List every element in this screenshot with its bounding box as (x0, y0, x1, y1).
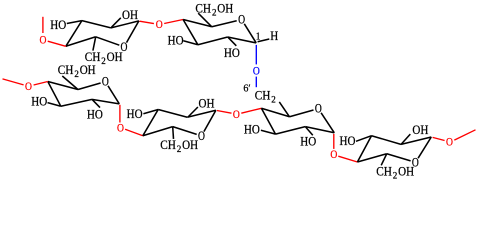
svg-text:H: H (270, 28, 278, 43)
ring A: bond C1-C2 (111, 21, 139, 28)
ring D: bond O(ring)-C1 (204, 110, 216, 131)
ring B: bond O(ring)-C1 (244, 24, 256, 43)
svg-text:HO: HO (168, 33, 184, 48)
ring A: bond C5-CH2OH (93, 37, 96, 51)
svg-text:HO: HO (340, 133, 356, 148)
svg-text:HO: HO (300, 134, 316, 149)
ring D: bond C5-O(ring) (173, 127, 197, 135)
ring C: bond C2-C3 (61, 99, 92, 106)
svg-text:HO: HO (50, 17, 66, 32)
ring C: chain-continuation stub (red) (3, 79, 24, 85)
svg-text:CH: CH (255, 88, 271, 103)
ring F: red bond C1-O (433, 137, 445, 140)
ring E: bond C3-C4 (261, 108, 275, 134)
svg-text:HO: HO (244, 122, 260, 137)
ring E: bond C2-HO (305, 127, 312, 135)
svg-text:O: O (238, 14, 245, 27)
ring C: bond CH2OH-C5 (62, 76, 78, 90)
glycosidic bond O-C4(D) (red) (125, 129, 143, 136)
ring F: bond C3-C4 (357, 136, 371, 162)
glucose ring D: bond C4-C5 (143, 127, 173, 136)
svg-text:O: O (117, 123, 124, 135)
svg-text:HO: HO (224, 45, 240, 60)
svg-text:OH: OH (182, 137, 198, 152)
1-6 glycosidic bond O down to C6' (blue) (255, 77, 257, 88)
ring B: bond C2-HO (228, 37, 236, 46)
svg-text:O: O (102, 76, 109, 89)
glycosidic bond O-C4(F) (red) (338, 156, 357, 162)
ring F: bond C5-CH2OH (381, 154, 387, 166)
svg-text:CH: CH (195, 1, 211, 16)
glycosidic bond O-C4(E) (red) (241, 108, 261, 113)
ring B: bond C1-H (258, 39, 270, 42)
ring F: bond C1-C2 (401, 137, 431, 144)
ring F: bond HO-C3 (356, 136, 372, 142)
svg-text:O: O (253, 66, 260, 78)
svg-text:OH: OH (107, 49, 123, 64)
svg-text:O: O (446, 137, 453, 149)
svg-text:2: 2 (74, 69, 79, 79)
ring A: bond HO-C3 (67, 21, 82, 24)
glycosidic bond C1(E)-O vertical (red) (333, 134, 335, 149)
glycosidic bond C1(C)-O vertical (red) (119, 105, 121, 123)
ring D: bond C1-C2 (187, 110, 216, 117)
ring E: bond HO-C3 (261, 130, 276, 134)
svg-text:2: 2 (101, 56, 106, 66)
glycosidic bond O-C4(B) (red) (164, 20, 183, 24)
glucose ring A: bond C4-C5 (66, 37, 96, 47)
ring A: bond C5-O(ring) (96, 37, 120, 45)
glucose ring F: bond C4-C5 (357, 154, 386, 162)
ring D: bond OH-C2 (188, 107, 198, 117)
svg-text:OH: OH (217, 1, 233, 16)
ring E: bond CH2-C5 (279, 102, 289, 117)
1-6 glycosidic bond from C1(B) down (blue) (255, 45, 257, 65)
svg-text:2: 2 (212, 7, 217, 17)
ring D: bond HO-C3 (143, 110, 158, 114)
ring E: bond C5-O(ring) (290, 110, 314, 117)
ring E: bond C2-C3 (276, 127, 306, 135)
svg-text:CH: CH (376, 164, 392, 179)
ring F: bond O(ring)-C1 (418, 137, 431, 158)
svg-text:2: 2 (177, 144, 182, 154)
ring A: bond OH-C2 (112, 18, 121, 27)
ring B: bond C3-C4 (183, 20, 198, 45)
ring B: bond C5-O(ring) (212, 21, 237, 27)
ring B: bond C1-C2 (228, 37, 257, 43)
svg-text:HO: HO (31, 94, 47, 109)
ring F: chain-continuation stub (red) (454, 130, 475, 140)
ring A: chain-continuation stub (red) (42, 17, 44, 33)
svg-text:OH: OH (122, 7, 138, 22)
svg-text:OH: OH (80, 62, 96, 77)
glucose ring C: bond C4-C5 (48, 82, 78, 90)
svg-text:O: O (40, 35, 47, 47)
ring E: bond O(ring)-C1 (321, 113, 334, 133)
svg-text:O: O (233, 109, 240, 121)
ring D: bond C5-CH2OH (172, 127, 175, 139)
glucose ring E: bond C4-C5 (261, 108, 289, 117)
svg-text:O: O (198, 130, 205, 143)
ring C: bond C1-C2 (92, 99, 119, 104)
ring C: bond HO-C3 (48, 103, 61, 107)
svg-text:O: O (315, 103, 322, 116)
ring C: bond O(ring)-C1 (108, 86, 119, 104)
ring A: bond C3-C4 (66, 21, 82, 47)
ring D: bond C2-C3 (158, 110, 187, 118)
svg-text:O: O (156, 19, 163, 31)
svg-text:HO: HO (127, 106, 143, 121)
ring F: bond C5-O(ring) (387, 154, 411, 161)
svg-text:HO: HO (87, 107, 103, 122)
ring F: bond OH-C2 (402, 134, 411, 144)
ring A: bond O(ring)-C1 (127, 21, 139, 43)
svg-text:6′: 6′ (243, 84, 250, 95)
ring B: bond CH2OH-C5 (198, 13, 212, 27)
svg-text:O: O (330, 149, 337, 161)
ring C: bond C2-HO (92, 100, 100, 108)
ring D: bond C3-C4 (143, 110, 158, 136)
svg-text:OH: OH (398, 164, 414, 179)
ring C: bond C3-C4 (48, 82, 61, 107)
ring B: bond HO-C3 (183, 41, 198, 45)
glycosidic bond C1(D)-O (red) (217, 111, 232, 114)
ring C: red bond O-C4 (34, 82, 48, 86)
svg-text:CH: CH (58, 62, 74, 77)
ring A: bond C2-C3 (82, 21, 111, 28)
ring B: bond C2-C3 (198, 37, 228, 45)
svg-text:OH: OH (199, 96, 215, 111)
ring E: bond C1-C2 (305, 127, 334, 133)
svg-text:OH: OH (412, 122, 428, 137)
ring A: red bond O-C4 (48, 41, 66, 46)
ring F: bond C2-C3 (372, 136, 402, 145)
svg-text:O: O (25, 81, 32, 93)
svg-text:2: 2 (393, 171, 398, 181)
svg-text:2: 2 (271, 94, 276, 104)
glycosidic bond C1(A)-O (red) (140, 21, 154, 23)
glucose ring B: bond C4-C5 (183, 20, 212, 27)
svg-text:CH: CH (160, 137, 176, 152)
ring C: bond C5-O(ring) (78, 83, 101, 90)
